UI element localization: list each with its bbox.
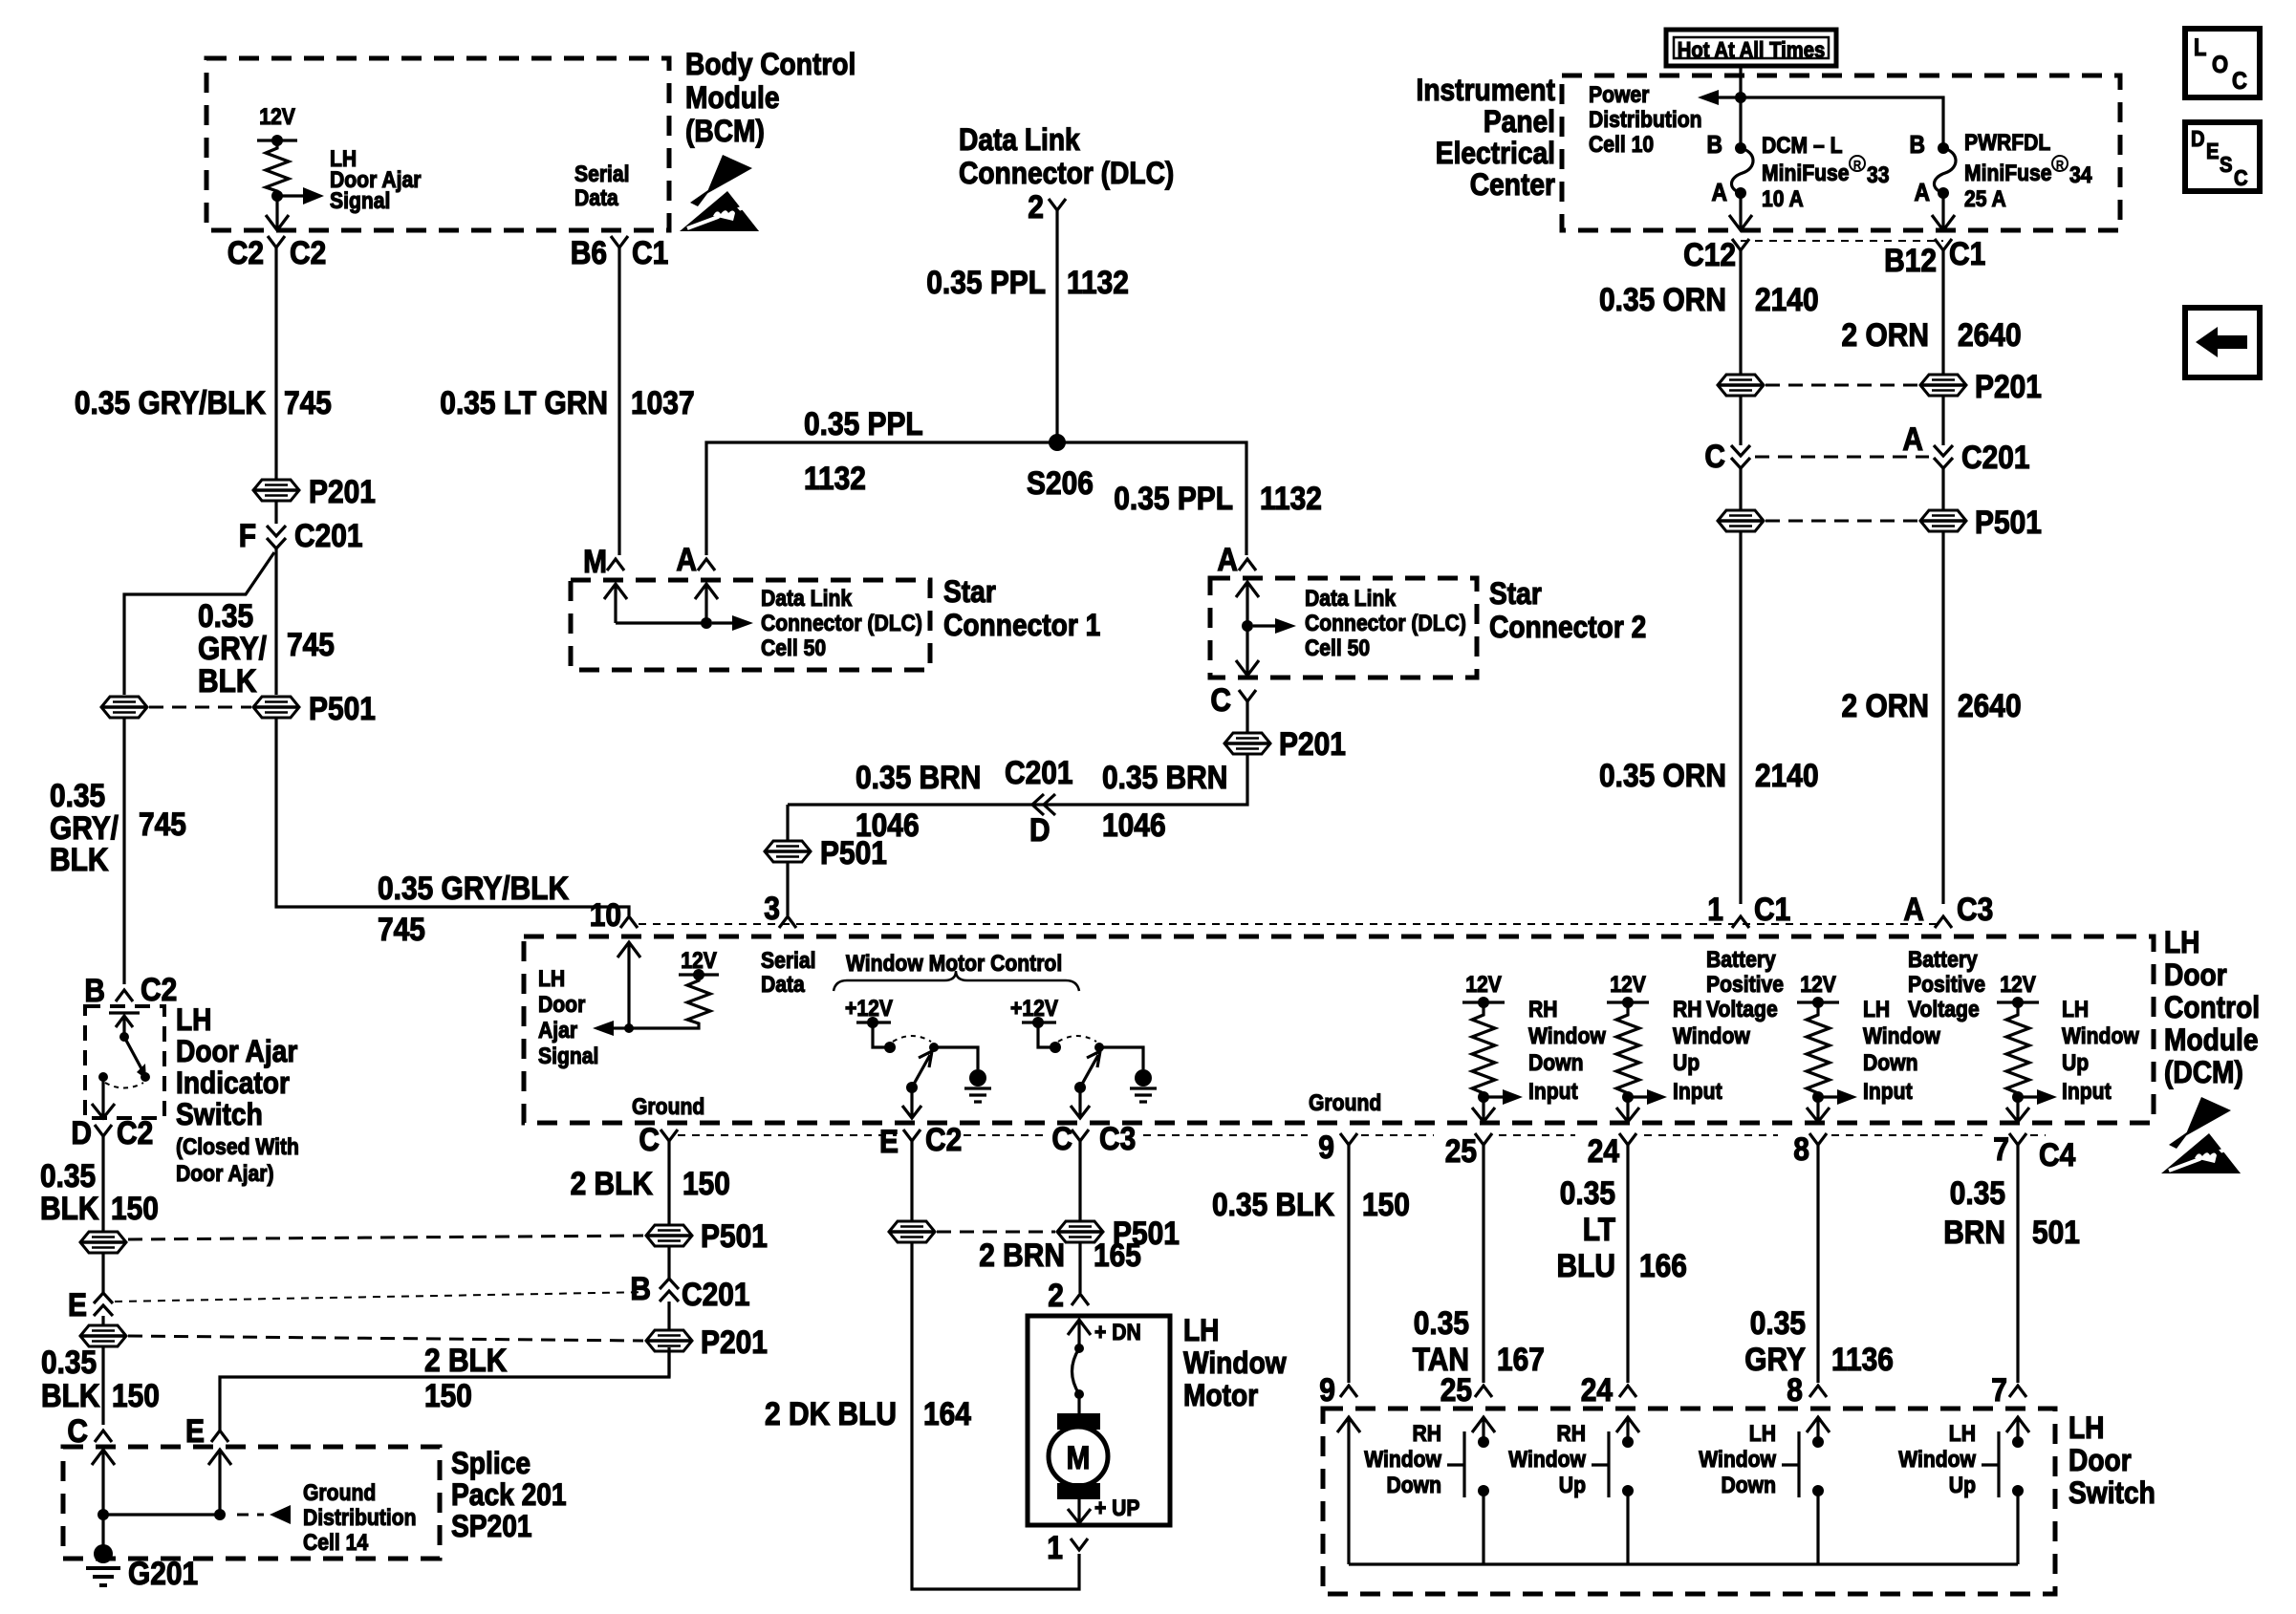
- svg-text:Window: Window: [1898, 1447, 1976, 1473]
- breaker contact dots: [1074, 1344, 1084, 1353]
- Splice Pack title: [451, 1446, 567, 1543]
- svg-text:C3: C3: [1957, 892, 1993, 928]
- connector half-Y at switch pin 8: [1809, 1386, 1827, 1397]
- svg-text:0.35: 0.35: [1414, 1305, 1469, 1342]
- switch output contact dot: [98, 1072, 108, 1082]
- connector Y at pin 9: [1340, 1133, 1357, 1145]
- connector C201 pin D chevrons (pointing left): [1032, 794, 1055, 815]
- resistor R4: [2006, 1002, 2029, 1097]
- svg-text:Ground: Ground: [632, 1094, 704, 1120]
- svg-text:DCM – L: DCM – L: [1762, 133, 1843, 159]
- arrow down from fuse 34 to box edge: [1932, 193, 1955, 230]
- wire between P201 and C201 (left): [1739, 397, 1742, 445]
- connector Y at pin D: [95, 1125, 112, 1136]
- wire label 0.35 LT BLU 166: [1557, 1175, 1687, 1284]
- svg-text:150: 150: [682, 1166, 730, 1202]
- connector half-Y at pin A: [1935, 916, 1952, 928]
- pass-through connector P201 on PPL/BRN path: [1224, 733, 1270, 754]
- svg-text:B: B: [1707, 130, 1723, 159]
- svg-text:Signal: Signal: [330, 188, 390, 214]
- connector half-Y at pin 1: [1732, 916, 1749, 928]
- wire below C201 B: [667, 1302, 670, 1329]
- svg-text:E: E: [68, 1287, 87, 1323]
- svg-text:0.35: 0.35: [1560, 1175, 1615, 1212]
- svg-text:8: 8: [1793, 1131, 1809, 1168]
- switch cell S3: LH Window Down: [1699, 1417, 1830, 1564]
- switch cell S2: RH Window Up: [1508, 1417, 1639, 1564]
- svg-text:Positive: Positive: [1908, 972, 1985, 998]
- svg-text:Down: Down: [1387, 1473, 1442, 1498]
- Data Link Connector Cell 50 label (SC2): [1305, 586, 1466, 661]
- Star Connector 1 box: [571, 580, 930, 670]
- svg-text:P501: P501: [701, 1218, 768, 1255]
- connector Y at SC2 pin C: [1239, 690, 1256, 701]
- wire 2 ORN 2640 down to DCM pin A: [1941, 532, 1944, 904]
- svg-text:166: 166: [1639, 1248, 1687, 1284]
- fuse 33 labels: [1762, 133, 1890, 212]
- svg-text:BRN: BRN: [1943, 1215, 2005, 1251]
- svg-text:2 BLK: 2 BLK: [571, 1166, 654, 1202]
- wire down from corner to P501: [786, 805, 789, 840]
- node dot: [1478, 1091, 1489, 1103]
- branch wire to fuse 34: [1741, 97, 1943, 148]
- Instrument Panel Electrical Center box: [1562, 75, 2120, 230]
- svg-text:B12: B12: [1884, 243, 1937, 279]
- wire from C201 down to P501: [274, 549, 277, 695]
- switch bottom bus wire: [1349, 1562, 2018, 1565]
- svg-text:25: 25: [1445, 1133, 1477, 1170]
- pull-up resistor in BCM: [266, 140, 289, 196]
- svg-text:0.35 GRY/BLK: 0.35 GRY/BLK: [378, 871, 569, 907]
- svg-text:P201: P201: [1279, 726, 1346, 763]
- svg-text:0.35 PPL: 0.35 PPL: [1114, 481, 1233, 517]
- dashed tie between P501 halves: [149, 706, 251, 709]
- pass-through connector P201 (right half): [1920, 375, 1966, 396]
- arrow pointing to signal label: [614, 1026, 629, 1029]
- splice arrow up at E: [208, 1450, 231, 1515]
- svg-text:2 BLK: 2 BLK: [424, 1343, 508, 1379]
- wire below P501: [667, 1247, 670, 1279]
- DESC reference box: [2185, 122, 2260, 191]
- svg-text:1: 1: [1047, 1530, 1063, 1566]
- svg-text:8: 8: [1787, 1372, 1803, 1409]
- LH Window Motor box: [1028, 1316, 1170, 1525]
- svg-text:34: 34: [2069, 162, 2092, 188]
- fuse DCM-L MiniFuse 33 element: [1731, 148, 1753, 193]
- 12V rail bar: [1462, 1001, 1505, 1003]
- svg-text:Data Link: Data Link: [761, 586, 853, 612]
- svg-text:2140: 2140: [1755, 282, 1819, 318]
- wire from P501 to DCM pin 3: [786, 863, 789, 915]
- svg-text:25: 25: [1440, 1372, 1472, 1409]
- svg-text:1132: 1132: [1260, 481, 1322, 517]
- Battery Positive Voltage label (C3): [1908, 947, 1985, 1022]
- Power Distribution Cell 10 label: [1589, 82, 1702, 158]
- svg-text:Instrument: Instrument: [1417, 73, 1556, 107]
- svg-text:A: A: [676, 542, 697, 578]
- Hot At All Times power box: [1666, 30, 1836, 66]
- right contact dot (motor control 2): [1094, 1043, 1104, 1052]
- wire below P501 to motor pin 2: [1078, 1243, 1081, 1293]
- svg-text:0.35 ORN: 0.35 ORN: [1599, 758, 1726, 794]
- svg-text:150: 150: [112, 1378, 160, 1414]
- svg-text:C2: C2: [141, 972, 177, 1008]
- svg-text:LH: LH: [1949, 1421, 1976, 1447]
- svg-text:G201: G201: [128, 1556, 198, 1592]
- svg-text:Door Ajar): Door Ajar): [176, 1161, 274, 1187]
- switch cell S1: RH Window Down: [1364, 1417, 1495, 1564]
- svg-text:BLU: BLU: [1557, 1248, 1616, 1284]
- svg-text:Switch: Switch: [176, 1097, 263, 1131]
- svg-text:LH: LH: [2069, 1410, 2105, 1445]
- wire between C201 and P501 (right): [1941, 468, 1944, 509]
- svg-text:2 ORN: 2 ORN: [1842, 317, 1930, 354]
- arrow down to pin 25: [1472, 1097, 1495, 1122]
- svg-text:B: B: [1910, 130, 1926, 159]
- svg-text:C201: C201: [1005, 755, 1073, 791]
- svg-text:9: 9: [1319, 1372, 1335, 1409]
- back-arrow reference box: [2185, 308, 2260, 377]
- svg-text:12V: 12V: [259, 104, 295, 130]
- svg-text:Motor: Motor: [1183, 1378, 1258, 1412]
- left branch wire down to indicator switch pin B: [122, 719, 125, 984]
- wire 0.35 GRY 1136 from DCM pin 8 down: [1816, 1145, 1819, 1383]
- svg-text:Door: Door: [538, 992, 585, 1018]
- svg-text:E: E: [879, 1124, 899, 1160]
- LH Door Ajar Signal label (DCM): [538, 966, 598, 1069]
- svg-text:C2: C2: [227, 235, 264, 271]
- Data Link Connector Cell 50 label (SC1): [761, 586, 922, 661]
- splice node dots: [97, 1509, 109, 1520]
- svg-text:R: R: [2056, 158, 2065, 172]
- svg-text:0.35 BLK: 0.35 BLK: [1212, 1187, 1334, 1223]
- wire label 0.35 TAN 167: [1413, 1305, 1545, 1378]
- wire from pin 10 into DCM with arrow up: [617, 942, 640, 1028]
- svg-text:25 A: 25 A: [1964, 186, 2006, 212]
- svg-text:167: 167: [1497, 1342, 1545, 1378]
- wire 0.35 LT BLU 166 from DCM pin 24 down: [1626, 1145, 1629, 1383]
- svg-text:C: C: [639, 1122, 660, 1158]
- svg-text:C3: C3: [1099, 1121, 1136, 1157]
- svg-text:A: A: [1902, 421, 1923, 458]
- arrow to input label: [1484, 1095, 1503, 1098]
- connector half-Y at motor pin 2: [1072, 1294, 1089, 1305]
- wire 0.35 BRN 501 from DCM pin 7 down: [2016, 1145, 2019, 1383]
- pull-up resistor (DCM): [629, 975, 710, 1028]
- svg-text:LH: LH: [176, 1002, 212, 1037]
- breaker curve: [1072, 1348, 1080, 1394]
- svg-text:150: 150: [1362, 1187, 1410, 1223]
- right contact dot (motor control 1): [929, 1043, 939, 1052]
- svg-text:Battery: Battery: [1908, 947, 1978, 973]
- input cell R4: LH Window Up Input: [1997, 972, 2139, 1122]
- connector Y at pin B12: [1935, 239, 1952, 250]
- svg-text:0.35 BRN: 0.35 BRN: [856, 760, 981, 796]
- 12V bar (motor control 1): [856, 1021, 891, 1023]
- svg-text:Input: Input: [2062, 1079, 2112, 1105]
- svg-text:C12: C12: [1683, 237, 1736, 273]
- internal node dot: [701, 617, 712, 629]
- svg-text:SP201: SP201: [451, 1509, 532, 1543]
- dashed tie to right P201 half: [128, 1336, 643, 1341]
- connector Y at pin 25: [1475, 1133, 1492, 1145]
- svg-text:Window: Window: [1528, 1023, 1606, 1049]
- svg-text:Positive: Positive: [1706, 972, 1784, 998]
- svg-text:2 BRN: 2 BRN: [979, 1237, 1065, 1274]
- Serial Data label (BCM): [574, 161, 630, 211]
- pass-through connector P201 (left half, bottom): [80, 1325, 126, 1346]
- svg-text:Door Ajar: Door Ajar: [176, 1034, 297, 1068]
- dashed travel arc (motor control 2): [1058, 1036, 1096, 1042]
- splice node S206: [1049, 434, 1066, 451]
- dashed tie between C201 halves: [1755, 456, 1929, 459]
- feed to contact (motor control 1): [873, 1022, 887, 1047]
- svg-text:Indicator: Indicator: [176, 1065, 290, 1100]
- LH Door Switch title: [2069, 1410, 2155, 1510]
- Star Connector 2 box: [1210, 578, 1477, 678]
- ESD sensitivity symbol at BCM: [680, 155, 759, 231]
- connector C201 pin F chevrons: [267, 526, 286, 549]
- svg-text:1132: 1132: [804, 461, 866, 497]
- svg-text:Star: Star: [1489, 576, 1542, 611]
- wire label 0.35 GRY/BLK 745 (left edge stacked): [50, 778, 186, 878]
- arrow down to pin C2: [266, 196, 289, 230]
- wire between P201 and C201 (right): [1941, 397, 1944, 445]
- connector Y at BCM pin B6: [611, 236, 628, 247]
- resistor R3: [1807, 1002, 1830, 1097]
- connector half-Y at pin A (SC2): [1239, 559, 1256, 570]
- resistor R2: [1616, 1002, 1639, 1097]
- wire 0.35 LT GRN 1037 from BCM B6 down to star connector M: [617, 247, 620, 555]
- svg-text:Voltage: Voltage: [1706, 997, 1778, 1022]
- svg-text:B: B: [84, 973, 105, 1009]
- svg-text:Cell 50: Cell 50: [761, 635, 826, 661]
- svg-text:RH: RH: [1528, 997, 1558, 1022]
- svg-text:0.35: 0.35: [198, 598, 253, 635]
- motor M armature: [1077, 1394, 1080, 1413]
- LH Door Ajar Signal label (BCM): [330, 146, 422, 214]
- ground feed arrow (pin 9) into switch: [1337, 1417, 1360, 1564]
- svg-text:(BCM): (BCM): [685, 114, 765, 148]
- svg-text:PWRFDL: PWRFDL: [1964, 130, 2050, 156]
- svg-text:D: D: [71, 1115, 92, 1151]
- svg-text:Ajar: Ajar: [538, 1018, 577, 1044]
- svg-text:3: 3: [764, 891, 780, 927]
- svg-text:Connector 2: Connector 2: [1489, 610, 1646, 644]
- dashed tie between P201 halves: [1765, 384, 1918, 387]
- fuse PWRFDL MiniFuse 34 element: [1934, 148, 1956, 193]
- svg-text:C4: C4: [2039, 1137, 2075, 1173]
- svg-text:0.35: 0.35: [1750, 1305, 1806, 1342]
- wire 0.35 GRY/BLK 745 from BCM C2 down: [274, 247, 277, 479]
- svg-text:LH: LH: [1749, 1421, 1776, 1447]
- internal arrow up from A: [695, 584, 718, 623]
- svg-text:P501: P501: [1975, 505, 2042, 541]
- connector C201 pin E chevrons: [94, 1293, 113, 1316]
- svg-text:Up: Up: [1559, 1473, 1586, 1498]
- svg-text:R: R: [1853, 158, 1862, 172]
- wire from SC2 pin C to P201: [1245, 701, 1248, 732]
- svg-text:Window: Window: [1183, 1345, 1287, 1380]
- svg-text:D: D: [2191, 126, 2205, 151]
- connector C201 pin B chevrons: [660, 1279, 679, 1302]
- svg-text:33: 33: [1867, 162, 1890, 188]
- svg-text:C2: C2: [925, 1122, 962, 1158]
- svg-text:Ground: Ground: [303, 1480, 376, 1506]
- svg-text:Door: Door: [2069, 1443, 2132, 1477]
- svg-text:Distribution: Distribution: [1589, 107, 1702, 133]
- svg-text:Star: Star: [943, 574, 996, 609]
- svg-text:P201: P201: [1975, 369, 2042, 405]
- connector Y at BCM pin C2: [268, 236, 285, 247]
- svg-text:1046: 1046: [1102, 807, 1166, 844]
- svg-text:2640: 2640: [1958, 688, 2022, 724]
- connector line under IPEC: [1741, 240, 1943, 242]
- connector C201 pin A chevrons: [1934, 445, 1953, 468]
- svg-text:Window: Window: [1699, 1447, 1776, 1473]
- svg-text:E: E: [2206, 139, 2220, 163]
- connector Y at pin 8: [1809, 1133, 1827, 1145]
- wire below P201: [274, 502, 277, 524]
- svg-text:Signal: Signal: [538, 1044, 598, 1069]
- LH Window Motor title: [1183, 1313, 1287, 1412]
- svg-text:Panel: Panel: [1484, 104, 1555, 139]
- switch contact dot (blade end): [141, 1072, 150, 1082]
- wire 2 ORN 2640 from B12 down: [1941, 250, 1944, 376]
- ground leg (motor control 1): [934, 1047, 978, 1069]
- pass-through connector P201 on GRY/BLK wire: [253, 480, 299, 501]
- svg-text:Battery: Battery: [1706, 947, 1776, 973]
- svg-text:2 ORN: 2 ORN: [1842, 688, 1930, 724]
- svg-text:Serial: Serial: [761, 948, 816, 974]
- svg-text:10: 10: [590, 897, 621, 934]
- serial data bus wire (horizontal through S206): [706, 442, 1246, 555]
- 12V rail bar: [679, 973, 719, 976]
- connector Y at DLC pin 2: [1049, 199, 1066, 210]
- svg-text:Connector (DLC): Connector (DLC): [959, 156, 1174, 190]
- svg-text:745: 745: [284, 385, 332, 421]
- arrow up inside motor: [1068, 1320, 1091, 1348]
- input cell R1: RH Window Down Input: [1462, 972, 1606, 1122]
- connector half-Y at pin A: [698, 559, 715, 570]
- connector C201 pin C chevrons: [1731, 445, 1750, 468]
- svg-text:1136: 1136: [1831, 1342, 1894, 1378]
- svg-text:0.35 GRY/BLK: 0.35 GRY/BLK: [75, 385, 266, 421]
- svg-text:M: M: [1067, 1440, 1091, 1476]
- svg-text:Module: Module: [685, 80, 780, 115]
- svg-text:10 A: 10 A: [1762, 186, 1804, 212]
- splice bus wire: [103, 1513, 220, 1516]
- arrow to Power Distribution reference: [1719, 96, 1741, 98]
- svg-text:Input: Input: [1528, 1079, 1578, 1105]
- wire label 0.35 GRY 1136: [1744, 1305, 1894, 1378]
- svg-text:0.35 PPL: 0.35 PPL: [926, 265, 1046, 301]
- svg-text:RH: RH: [1557, 1421, 1587, 1447]
- internal node dot (SC2): [1242, 620, 1253, 632]
- wire continues down to motor pin 1 feed: [912, 1243, 1079, 1589]
- pass-through connector P501 (right half): [1920, 510, 1966, 531]
- connector half-Y at pin B: [116, 990, 133, 1001]
- wire 0.35 BLK 150 from DCM pin 9 down: [1347, 1145, 1350, 1383]
- switch blade (closed position): [124, 1037, 143, 1072]
- wire 2 BLK 150 from DCM pin C down: [667, 1141, 670, 1224]
- svg-text:Module: Module: [2164, 1022, 2259, 1057]
- svg-text:Up: Up: [1949, 1473, 1976, 1498]
- node dot on feed: [1735, 92, 1746, 103]
- Splice Pack 201 box: [63, 1447, 440, 1559]
- svg-text:P501: P501: [820, 835, 887, 872]
- wire 0.35 TAN 167 from DCM pin 25 down: [1482, 1145, 1484, 1383]
- svg-text:Window Motor Control: Window Motor Control: [846, 951, 1062, 977]
- svg-text:Data: Data: [574, 185, 618, 211]
- svg-text:Door: Door: [2164, 958, 2227, 992]
- svg-text:0.35: 0.35: [40, 1158, 96, 1194]
- pass-through connector P501 (left pair half, on branch): [101, 697, 147, 718]
- internal bus wire of Star Connector 1: [616, 621, 706, 624]
- fuse 34 labels: [1964, 130, 2092, 212]
- svg-text:D: D: [1029, 812, 1051, 849]
- svg-text:C2: C2: [117, 1115, 153, 1151]
- pass-through connector P201 (left half, ORN wire): [1718, 375, 1764, 396]
- svg-text:Hot At All Times: Hot At All Times: [1678, 37, 1825, 62]
- wire below P501: [101, 1254, 104, 1293]
- svg-text:B: B: [630, 1271, 651, 1307]
- pass-through connector P501 (right half, door pair): [1057, 1221, 1103, 1242]
- wire from P501 down then right to DCM pin 10: [276, 719, 629, 915]
- svg-text:Window: Window: [1863, 1023, 1940, 1049]
- svg-text:GRY/: GRY/: [198, 631, 267, 667]
- svg-text:A: A: [1903, 892, 1924, 928]
- svg-text:2640: 2640: [1958, 317, 2022, 354]
- connector Y at pin 24: [1619, 1133, 1636, 1145]
- connector half-Y at switch pin 9: [1340, 1386, 1357, 1397]
- svg-text:BLK: BLK: [50, 842, 109, 878]
- pass-through connector P501 (left half): [1718, 510, 1764, 531]
- dashed tie to C201 pin B: [115, 1292, 650, 1302]
- svg-text:7: 7: [1991, 1372, 2007, 1409]
- Star Connector 2 title: [1489, 576, 1646, 644]
- svg-text:BLK: BLK: [40, 1191, 99, 1227]
- svg-text:P501: P501: [309, 691, 376, 727]
- svg-text:Down: Down: [1722, 1473, 1777, 1498]
- wire label 0.35 BLK 150: [40, 1158, 159, 1227]
- svg-text:12V: 12V: [1800, 972, 1836, 998]
- pass-through connector P501 (left half at splice path): [80, 1232, 126, 1253]
- svg-text:2 DK BLU: 2 DK BLU: [765, 1396, 897, 1432]
- svg-text:A: A: [1217, 542, 1238, 578]
- LOC reference box: [2185, 29, 2260, 97]
- svg-text:24: 24: [1581, 1372, 1613, 1409]
- connector Y at motor pin 1: [1071, 1539, 1088, 1550]
- Ground Distribution Cell 14 label: [303, 1480, 417, 1556]
- node at resistor bottom: [271, 190, 283, 202]
- svg-text:C: C: [1051, 1121, 1072, 1157]
- svg-text:Connector 1: Connector 1: [943, 608, 1100, 642]
- ESD sensitivity symbol at DCM: [2161, 1097, 2241, 1173]
- svg-text:LT: LT: [1583, 1212, 1616, 1248]
- svg-text:745: 745: [139, 807, 186, 843]
- dashed tie to right P501 half: [128, 1236, 643, 1239]
- svg-text:2: 2: [1028, 189, 1044, 226]
- arrow to DLC cell reference (SC2): [1253, 624, 1275, 627]
- svg-text:Cell 14: Cell 14: [303, 1530, 369, 1556]
- svg-text:1132: 1132: [1067, 265, 1129, 301]
- svg-text:+12V: +12V: [1010, 996, 1058, 1022]
- resistor R1: [1472, 1002, 1495, 1097]
- svg-text:150: 150: [424, 1378, 472, 1414]
- svg-text:C201: C201: [1961, 440, 2030, 476]
- svg-text:C: C: [1704, 439, 1725, 475]
